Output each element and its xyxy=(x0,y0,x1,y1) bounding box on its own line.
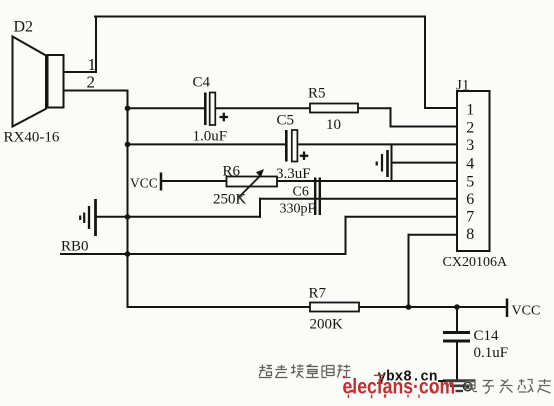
wire R7 row right to VCC xyxy=(359,306,507,308)
svg-text:330pF: 330pF xyxy=(280,202,316,217)
wire VCC to R6 xyxy=(161,180,227,182)
wire R5 corner vertical xyxy=(390,108,392,126)
wire to J1 pin 7 xyxy=(346,216,458,218)
wire RB0 line xyxy=(61,253,346,255)
watermark logo circle xyxy=(464,382,472,390)
wire to J1 pin 6 xyxy=(260,198,457,200)
wire pin6 corner vertical xyxy=(259,199,261,217)
wire speaker pin1 stub xyxy=(64,71,97,73)
wire to J1 pin 2 xyxy=(391,126,458,128)
svg-text:R6: R6 xyxy=(223,164,241,180)
ground left xyxy=(80,199,95,236)
wire to J1 pin 4 xyxy=(392,162,458,164)
watermark red ticks xyxy=(348,375,419,398)
wire C4 row left xyxy=(128,107,205,109)
wire to J1 pin 8 xyxy=(409,234,458,236)
junction node RB0 row xyxy=(125,251,131,257)
wire speaker pin2 stub xyxy=(64,90,128,92)
wire C5 to J1 pin 3 xyxy=(297,143,457,145)
wire R5 right xyxy=(358,107,391,109)
svg-text:VCC: VCC xyxy=(130,176,158,191)
svg-text:C4: C4 xyxy=(193,75,211,91)
wire C14 bottom lead xyxy=(456,342,458,380)
svg-text:8: 8 xyxy=(466,226,474,243)
watermark red specks xyxy=(343,376,346,379)
svg-text:5: 5 xyxy=(466,174,474,191)
svg-text:7: 7 xyxy=(466,209,474,226)
svg-text:RX40-16: RX40-16 xyxy=(4,130,60,146)
svg-text:CX20106A: CX20106A xyxy=(443,255,508,270)
svg-text:4: 4 xyxy=(466,155,474,172)
junction node speaker / C4 row xyxy=(125,106,131,112)
wire ground drop pin3 to pin5 xyxy=(391,144,393,181)
wire R7 row left xyxy=(128,306,311,308)
svg-text:C5: C5 xyxy=(277,113,295,129)
wire top loop right vertical xyxy=(424,17,426,109)
wire to J1 pin 1 xyxy=(425,107,457,109)
svg-text:1: 1 xyxy=(88,55,97,74)
svg-text:2: 2 xyxy=(87,73,96,92)
speaker D2 cone xyxy=(13,37,47,127)
capacitor C6 plates xyxy=(314,178,316,216)
resistor R7 body xyxy=(310,303,359,312)
svg-text:1: 1 xyxy=(466,101,474,118)
wire R6 to J1 pin 5 xyxy=(277,180,457,182)
wire left ground column vertical xyxy=(127,91,129,308)
svg-text:elecfans·com: elecfans·com xyxy=(343,375,456,399)
svg-text:0.1uF: 0.1uF xyxy=(474,345,509,361)
capacitor C5 plates xyxy=(285,130,288,162)
svg-text:6: 6 xyxy=(466,191,474,208)
svg-text:R7: R7 xyxy=(309,286,327,302)
wire top loop left vertical xyxy=(95,17,97,73)
wire top loop horizontal xyxy=(95,16,425,18)
svg-text:C14: C14 xyxy=(474,328,500,344)
svg-text:R5: R5 xyxy=(308,86,326,102)
svg-text:RB0: RB0 xyxy=(61,239,89,255)
speaker D2 body xyxy=(48,55,64,108)
svg-text:D2: D2 xyxy=(14,19,34,36)
svg-text:3.3uF: 3.3uF xyxy=(276,166,311,182)
resistor R5 body xyxy=(310,104,358,113)
svg-text:10: 10 xyxy=(326,117,341,133)
junction node C14 / R7 row xyxy=(454,304,460,310)
svg-text:250K: 250K xyxy=(213,192,247,208)
resistor R6 arrow xyxy=(239,176,261,198)
svg-text:J1: J1 xyxy=(456,78,469,94)
watermark chinese gray text xyxy=(465,379,551,394)
wire pin8 down vertical xyxy=(408,235,410,307)
wire C4 to R5 xyxy=(216,107,311,109)
junction node C5 row xyxy=(125,142,131,148)
svg-text:1.0uF: 1.0uF xyxy=(193,129,228,145)
svg-text:VCC: VCC xyxy=(512,304,541,319)
wire pin7 down to RB0 xyxy=(345,217,347,254)
label pin numbers xyxy=(466,101,474,243)
capacitor C4 plus xyxy=(220,116,229,118)
svg-text:2: 2 xyxy=(466,119,474,136)
wire C14 top lead xyxy=(456,307,458,332)
capacitor C4 plates xyxy=(204,93,207,126)
capacitor C5 plus xyxy=(300,155,309,157)
VCC bar left xyxy=(160,173,163,191)
junction node pin8 / R7 row xyxy=(406,304,412,310)
wire C5 row left xyxy=(128,143,287,145)
svg-text:C6: C6 xyxy=(293,185,309,200)
svg-text:3: 3 xyxy=(466,137,474,154)
svg-text:200K: 200K xyxy=(310,317,344,333)
connector J1 box xyxy=(457,91,490,251)
caption chinese module text xyxy=(259,365,351,379)
ground below C14 xyxy=(443,381,476,391)
wire ground row xyxy=(96,216,260,218)
capacitor C14 plates xyxy=(443,331,470,334)
VCC bar right xyxy=(506,299,509,318)
resistor R6 body xyxy=(227,177,278,187)
junction node ground row xyxy=(125,214,131,220)
ground at J1 pin4 xyxy=(377,150,388,177)
